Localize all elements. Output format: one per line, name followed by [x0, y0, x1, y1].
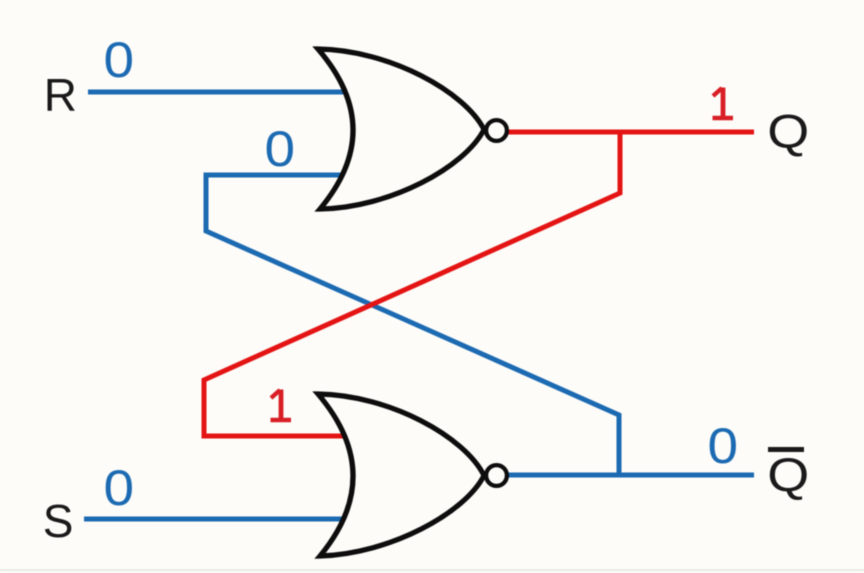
svg-text:Q: Q — [767, 105, 809, 158]
svg-text:0: 0 — [104, 460, 135, 516]
svg-text:R: R — [44, 69, 77, 121]
svg-text:S: S — [43, 495, 74, 547]
svg-text:0: 0 — [104, 32, 135, 88]
svg-text:Q: Q — [767, 448, 809, 501]
svg-text:0: 0 — [708, 418, 739, 474]
svg-text:0: 0 — [265, 121, 296, 177]
